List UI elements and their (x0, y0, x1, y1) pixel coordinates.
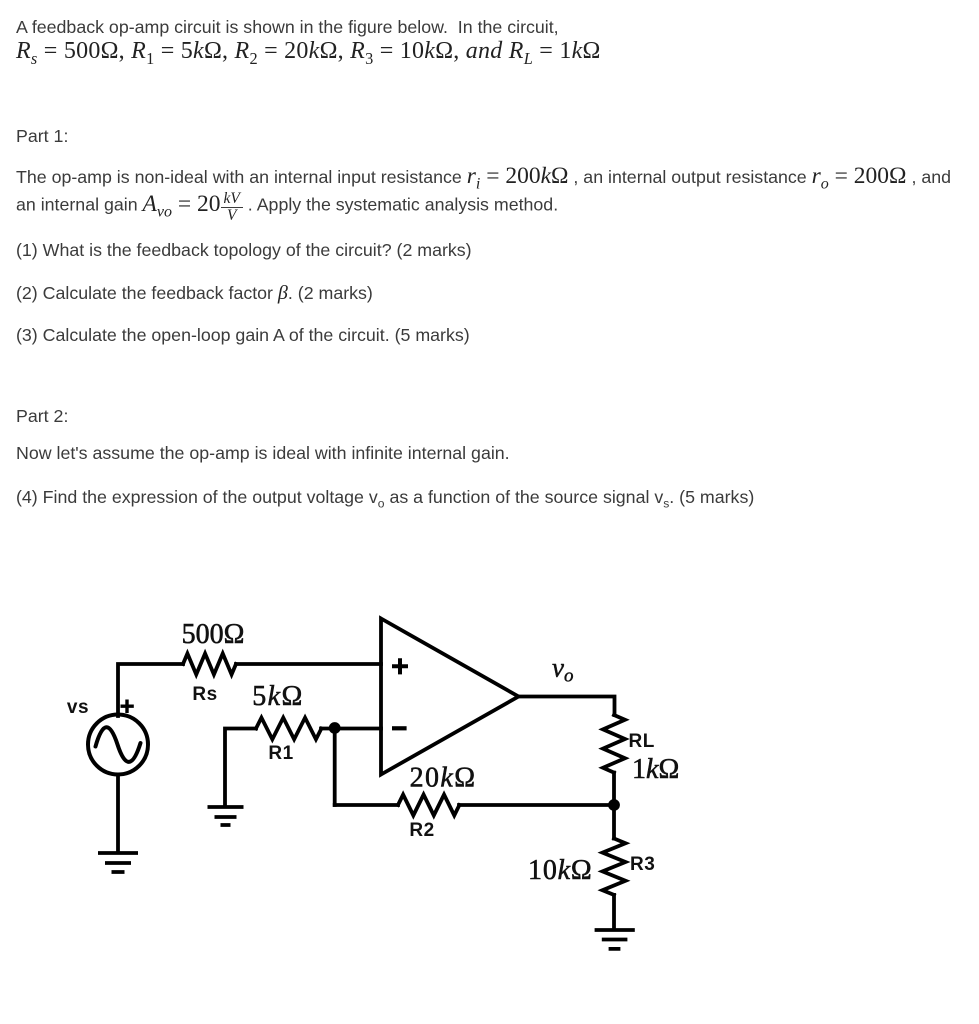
svg-text:20kΩ: 20kΩ (410, 763, 477, 794)
svg-text:Rs: Rs (192, 684, 217, 705)
q2 (16, 283, 373, 304)
wire top: source to op-amp + input (118, 664, 381, 716)
minus sign op-amp (392, 726, 407, 730)
wire node B to R3 (612, 805, 616, 839)
svg-text:vs: vs (67, 697, 89, 718)
wire op-amp output (519, 697, 615, 716)
line now (16, 443, 510, 464)
q1 (16, 240, 472, 261)
resistor R2 (398, 795, 459, 816)
wire feedback R2 (335, 803, 615, 807)
svg-text:R3: R3 (630, 854, 655, 875)
wire R1 left leg (225, 729, 381, 807)
svg-text:500Ω: 500Ω (182, 619, 245, 650)
ground (R1) (208, 807, 244, 825)
op-amp U1 (381, 619, 519, 775)
line r_i (16, 166, 951, 188)
wire RL bottom to node B (612, 773, 616, 805)
svg-text:RL: RL (629, 731, 655, 752)
resistor RL (603, 715, 625, 773)
Part 1 (16, 126, 68, 147)
resistor R1 (256, 718, 321, 740)
plus sign at source (121, 700, 134, 714)
svg-text:1kΩ: 1kΩ (632, 754, 679, 785)
line 2 math (16, 41, 601, 62)
svg-text:R2: R2 (409, 820, 434, 841)
ground (output) (595, 930, 635, 949)
resistor Rs (183, 654, 236, 675)
plus sign op-amp (392, 658, 408, 674)
wire node A down to feedback (333, 729, 337, 806)
q3 (16, 325, 470, 346)
q4 (16, 487, 754, 508)
line 1 (16, 17, 559, 38)
svg-text:vo: vo (552, 653, 573, 687)
voltage source VS (88, 715, 148, 775)
line A_vo (16, 191, 558, 223)
resistor R3 (603, 839, 626, 895)
node A: inverting input junction (329, 722, 341, 734)
svg-text:R1: R1 (268, 743, 293, 764)
circuit schematic (0, 560, 760, 1024)
svg-text:10kΩ: 10kΩ (528, 855, 592, 886)
wire source bottom to ground (116, 775, 120, 853)
wire R3 bottom to ground (612, 895, 616, 930)
Part 2 (16, 406, 68, 427)
node B: output/feedback junction (608, 799, 620, 811)
svg-text:5kΩ: 5kΩ (252, 681, 303, 712)
ground (source) (98, 853, 138, 872)
